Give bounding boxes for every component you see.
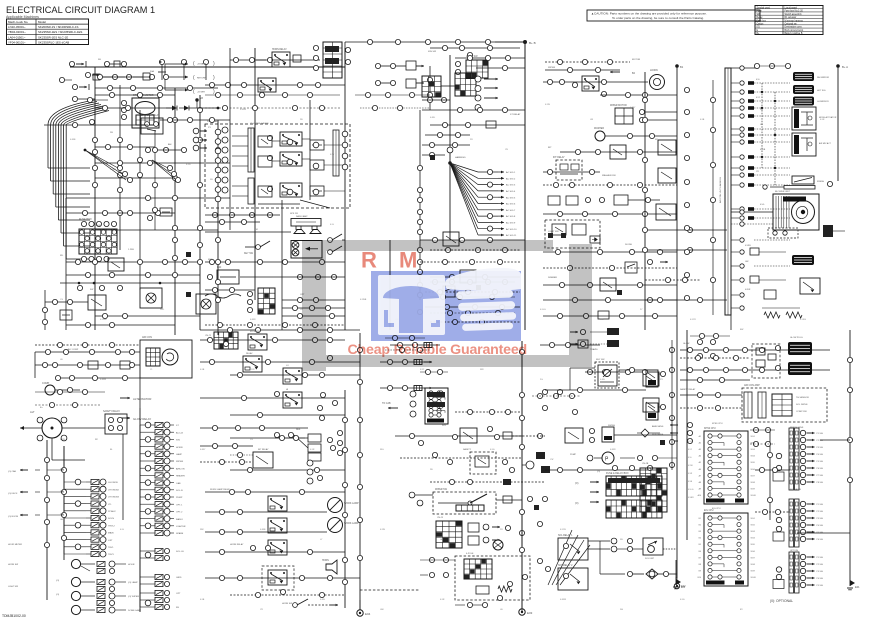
- svg-text:FUSE & RELAY BOX: FUSE & RELAY BOX: [606, 472, 629, 475]
- svg-text:0.5W: 0.5W: [60, 439, 65, 441]
- svg-text:E/G CPU: E/G CPU: [712, 508, 721, 510]
- lamp F1: [328, 498, 360, 513]
- svg-text:0.5Y: 0.5Y: [330, 154, 335, 156]
- connector grid G2: [436, 521, 462, 548]
- bus bar main right: [719, 68, 731, 315]
- svg-text:SOL RELAY 2: SOL RELAY 2: [558, 564, 573, 567]
- svg-text:0.5B: 0.5B: [688, 481, 693, 483]
- bus line xH687: [676, 330, 687, 540]
- svg-text:P4 SIG: P4 SIG: [817, 525, 824, 527]
- wire hG345: [540, 340, 600, 348]
- svg-text:HOT SIG: HOT SIG: [817, 90, 826, 92]
- ground E03: [519, 608, 533, 615]
- svg-text:COMP: COMP: [42, 382, 50, 385]
- svg-text:0.85W: 0.85W: [240, 109, 246, 111]
- wire hG455: [400, 452, 522, 472]
- svg-text:0.5RG: 0.5RG: [800, 319, 806, 321]
- dark cells extra: [325, 46, 660, 483]
- svg-text:P3 SIG: P3 SIG: [817, 571, 824, 573]
- svg-text:0.5YB: 0.5YB: [560, 529, 566, 531]
- wire hF446: [200, 443, 253, 448]
- svg-text:Symbol used: Symbol used: [757, 7, 771, 9]
- relay G-rr1: [646, 370, 666, 387]
- svg-text:SPARE: SPARE: [176, 532, 184, 535]
- connector scatter D: [642, 97, 692, 252]
- lamp F2: [328, 518, 360, 533]
- wire hA125: [44, 119, 148, 127]
- svg-text:0.5GW: 0.5GW: [100, 319, 107, 321]
- connector block BC: [455, 55, 488, 78]
- wire hA288: [60, 282, 200, 291]
- legend table: [755, 6, 823, 36]
- resistor zigzag D2: [786, 312, 802, 318]
- svg-text:P2 SIG: P2 SIG: [817, 511, 824, 513]
- wire hA230: [95, 229, 218, 231]
- svg-text:(O) WIPER: (O) WIPER: [128, 596, 139, 598]
- svg-text:LH MIRROR: LH MIRROR: [817, 101, 829, 103]
- svg-text:RETURN: RETURN: [197, 78, 207, 80]
- svg-text:FR WIPER: FR WIPER: [250, 331, 261, 333]
- svg-text:0.85B: 0.85B: [760, 149, 766, 151]
- wire hD300: [645, 297, 727, 302]
- option label brackets 2: [193, 75, 215, 81]
- wire vB345 top: [344, 42, 346, 60]
- connector row A1: [145, 147, 186, 152]
- svg-text:B3: B3: [699, 531, 701, 533]
- dashed box F9: [262, 566, 294, 590]
- wire hA108: [95, 105, 175, 110]
- svg-text:0.85R: 0.85R: [250, 319, 256, 321]
- wire hH408: [680, 405, 742, 410]
- bus line xA218: [217, 120, 219, 335]
- svg-text:E03: E03: [527, 611, 533, 615]
- svg-text:AIR CON: AIR CON: [142, 336, 152, 339]
- controller A pin labels: [698, 435, 756, 497]
- conn H 430-470 rows: [750, 427, 775, 446]
- wire hG412: [455, 409, 522, 414]
- svg-text:0.5R: 0.5R: [310, 449, 315, 451]
- components D 240-315: [731, 238, 800, 310]
- relay B5: [267, 183, 302, 197]
- connector row CR1: [547, 79, 577, 87]
- svg-text:Mach-to-wk No.: Mach-to-wk No.: [8, 20, 28, 24]
- small box B1: [293, 55, 301, 62]
- svg-text:AMB SENS: AMB SENS: [652, 425, 664, 428]
- wire battery relay to bus: [120, 85, 140, 290]
- wire hC214: [543, 211, 677, 216]
- svg-text:(O): (O): [575, 482, 579, 485]
- svg-text:P1 SIG: P1 SIG: [817, 433, 824, 435]
- svg-text:0.5Y: 0.5Y: [420, 369, 425, 371]
- svg-text:B2: B2: [699, 525, 701, 527]
- diode sym 2: [179, 106, 189, 111]
- bus line xE123: [122, 434, 124, 520]
- arrow rows G top: [570, 328, 619, 347]
- pin strip B: [248, 128, 254, 204]
- wire hH512: [755, 509, 790, 514]
- svg-text:AC SIG 11: AC SIG 11: [506, 234, 517, 237]
- relay D10: [800, 278, 820, 294]
- svg-text:0.5R: 0.5R: [820, 119, 825, 121]
- key switch: [244, 241, 270, 255]
- switch slash D: [792, 176, 833, 187]
- svg-text:RH MIRROR: RH MIRROR: [817, 77, 830, 79]
- svg-text:AC SIG 10: AC SIG 10: [506, 228, 517, 231]
- svg-text:SIG2: SIG2: [751, 525, 755, 527]
- svg-text:AC SIG 7: AC SIG 7: [506, 209, 516, 212]
- relay C225b: [572, 224, 586, 235]
- connector grid F1: [214, 332, 238, 349]
- relay D-l3: [656, 204, 676, 220]
- svg-text:0.85L: 0.85L: [430, 117, 436, 119]
- connector block G1: [425, 388, 448, 424]
- relay B2: [258, 78, 276, 92]
- wire hG435: [395, 426, 543, 445]
- arrow to frame 1: [165, 63, 188, 91]
- svg-text:TRV3: TRV3: [108, 554, 114, 556]
- wire top bus: [70, 67, 345, 120]
- svg-text:SIG8: SIG8: [751, 564, 755, 566]
- svg-text:P6 SIG: P6 SIG: [817, 539, 824, 541]
- arrow E left: [8, 469, 28, 518]
- svg-text:AIR MIX ACT: AIR MIX ACT: [819, 142, 832, 145]
- svg-text:Fuse box: Fuse box: [757, 20, 767, 22]
- svg-text:P3 SIG: P3 SIG: [817, 447, 824, 449]
- relay G-rr2: [646, 403, 666, 420]
- svg-text:SK235SRLC-1ES dCAB: SK235SRLC-1ES dCAB: [38, 40, 69, 44]
- svg-text:PUMP: PUMP: [570, 454, 577, 456]
- wire hB316: [282, 300, 345, 316]
- svg-text:0.85R: 0.85R: [610, 449, 616, 451]
- svg-text:AC SIG 5: AC SIG 5: [506, 196, 516, 199]
- label scatter D: [745, 79, 766, 291]
- fuse rows bottom left: [56, 559, 142, 614]
- wire hA120: [160, 117, 230, 122]
- svg-text:B6: B6: [699, 551, 701, 553]
- svg-text:(O) CAB: (O) CAB: [8, 470, 16, 473]
- svg-text:WASHER SW: WASHER SW: [602, 174, 617, 177]
- wire hB222: [205, 219, 260, 224]
- diode sym 1: [166, 106, 177, 111]
- wire top y42: [345, 39, 525, 44]
- connector col C1: [475, 76, 498, 111]
- svg-text:P7 SIG: P7 SIG: [817, 475, 824, 477]
- wire hC250-2: [430, 247, 520, 252]
- cluster rails B: [232, 136, 248, 196]
- relay CR1: [582, 76, 599, 91]
- svg-text:ALTERNATOR: ALTERNATOR: [133, 397, 151, 401]
- wire hC125: [430, 122, 525, 127]
- connector row C0: [467, 42, 525, 71]
- wire hH358: [680, 355, 750, 360]
- svg-text:AC SIG 9: AC SIG 9: [506, 222, 516, 225]
- svg-text:(O): (O): [597, 471, 600, 473]
- svg-text:SIG9: SIG9: [751, 488, 755, 490]
- ground flag mid: [673, 577, 686, 589]
- cluster circles col B: [215, 129, 221, 202]
- label scatter E: [8, 348, 99, 588]
- wire hE345: [35, 342, 140, 347]
- conn E 355: [42, 349, 134, 380]
- controller block 2: [704, 510, 748, 586]
- svg-text:AC SIG 2: AC SIG 2: [506, 177, 516, 180]
- connector row B275: [207, 274, 345, 279]
- connector A joints: [117, 160, 202, 230]
- resistor zigzag D1: [764, 312, 780, 318]
- relay A4: [88, 295, 106, 310]
- svg-text:0.5B: 0.5B: [200, 599, 205, 601]
- pin strip B right: [333, 130, 348, 176]
- svg-text:SPK 2R: SPK 2R: [290, 213, 298, 215]
- small box G435: [503, 432, 545, 439]
- svg-text:Applicable Machines: Applicable Machines: [6, 15, 39, 19]
- svg-text:HOUR METER: HOUR METER: [8, 544, 22, 546]
- wire hB325: [205, 322, 345, 327]
- svg-text:LW: LW: [760, 124, 763, 126]
- svg-text:LIGHT SW: LIGHT SW: [8, 586, 18, 588]
- svg-text:RADIO: RADIO: [176, 518, 183, 521]
- connector table H: [640, 468, 667, 512]
- wire hG338: [385, 335, 425, 340]
- svg-text:A9: A9: [699, 487, 701, 490]
- wire hH370: [680, 367, 830, 372]
- svg-text:E04: E04: [365, 612, 371, 616]
- diode C240b: [590, 236, 600, 243]
- fusible link F3: [203, 59, 208, 80]
- relay B3: [267, 132, 302, 146]
- wire hB85: [205, 84, 345, 86]
- svg-text:2G: 2G: [540, 379, 543, 381]
- svg-text:SIG7: SIG7: [751, 557, 755, 559]
- controller B pin labels: [698, 518, 756, 579]
- caution note box: [587, 10, 760, 21]
- connector row B4: [297, 297, 334, 318]
- wire hA95b: [95, 92, 175, 97]
- speaker symbols: [294, 226, 321, 234]
- connector row B215: [205, 212, 280, 217]
- wire hA147: [95, 144, 155, 149]
- ground G677: [674, 578, 686, 589]
- svg-text:0.85Y: 0.85Y: [200, 449, 206, 451]
- bus line xF345: [344, 390, 346, 608]
- wire hE352: [35, 349, 140, 354]
- svg-text:HARNESS: HARNESS: [455, 156, 466, 159]
- relay C285: [600, 278, 616, 291]
- svg-text:WIPER MOTOR: WIPER MOTOR: [610, 105, 627, 107]
- conn G extra: [542, 369, 607, 414]
- switch lamp D3: [793, 97, 829, 106]
- svg-text:IGN: IGN: [176, 440, 180, 442]
- svg-text:Relay: Relay: [757, 17, 764, 19]
- glow plug pack 2: [775, 362, 812, 375]
- connector scatter A: [92, 107, 220, 152]
- wire hC152: [560, 149, 677, 154]
- bus line xA200: [199, 95, 201, 330]
- svg-text:LG: LG: [250, 439, 253, 441]
- dashed relay G455: [470, 452, 496, 474]
- radio amp box: [291, 215, 321, 226]
- relay C277: [460, 270, 476, 283]
- connector strip H1: [773, 428, 823, 490]
- relay G-b2: [558, 564, 588, 590]
- wire hB108: [205, 105, 340, 110]
- lever switch box G: [433, 489, 496, 514]
- svg-text:0.5BR: 0.5BR: [688, 497, 694, 499]
- node +B topleft: [189, 97, 219, 109]
- svg-text:A5: A5: [699, 461, 701, 464]
- svg-text:GW: GW: [380, 609, 384, 611]
- svg-text:TO CAB: TO CAB: [382, 402, 391, 405]
- conn G5 labels: [688, 441, 694, 499]
- svg-text:KEY SW: KEY SW: [596, 359, 605, 361]
- wire hF470: [230, 467, 345, 480]
- wire E vert: [35, 352, 140, 408]
- switch box C292: [443, 286, 455, 297]
- arrow label G1: [382, 402, 398, 409]
- box row G1: [468, 523, 500, 532]
- connector block CN-B: [313, 42, 350, 78]
- svg-text:(O): (O): [575, 502, 579, 505]
- wire hC300: [543, 297, 677, 302]
- svg-text:ALT: ALT: [30, 410, 35, 414]
- wire hCR60: [545, 59, 630, 64]
- wire hBC95: [355, 92, 430, 97]
- svg-text:BW: BW: [740, 329, 743, 331]
- pump circle: [587, 452, 614, 464]
- ignition switch assy: [595, 359, 619, 388]
- connector col A140: [92, 149, 142, 192]
- relay H-l1: [643, 372, 659, 386]
- svg-text:0.85B: 0.85B: [70, 139, 76, 141]
- svg-text:SIG4: SIG4: [751, 538, 755, 540]
- wire B diag: [258, 200, 330, 208]
- svg-text:+B: +B: [200, 97, 203, 100]
- connector strip H3: [773, 552, 823, 593]
- svg-text:OPTION: OPTION: [790, 550, 798, 552]
- svg-text:OPT-1: OPT-1: [176, 504, 183, 506]
- fuel pump diamond: [600, 569, 677, 579]
- wire hC240: [420, 237, 525, 242]
- component cluster C200: [548, 195, 660, 205]
- ignition block: [217, 266, 239, 284]
- svg-text:IGN: IGN: [217, 266, 222, 269]
- fuse column mid: [64, 479, 120, 557]
- wire hC322: [430, 319, 520, 324]
- resistor C: [486, 121, 496, 128]
- relay D-l2: [658, 168, 676, 183]
- svg-text:P3 SIG: P3 SIG: [817, 518, 824, 520]
- svg-text:KPSS CPU: KPSS CPU: [704, 428, 716, 430]
- connector A row bottom: [85, 313, 127, 327]
- svg-text:ST RELAY: ST RELAY: [510, 113, 521, 116]
- svg-text:0.5W: 0.5W: [545, 104, 550, 106]
- wire hH470: [755, 467, 790, 472]
- svg-text:SAFETY RELAY: SAFETY RELAY: [103, 410, 120, 413]
- wire hC277: [430, 274, 520, 279]
- svg-text:LH KNOB: LH KNOB: [108, 482, 118, 484]
- wire hC48: [430, 45, 520, 50]
- box row G2: [468, 536, 500, 545]
- svg-text:0.5Y: 0.5Y: [688, 449, 693, 451]
- junction dots D: [761, 83, 776, 185]
- bus line x420 top: [419, 110, 421, 180]
- wire hB308: [282, 305, 345, 310]
- circle G468: [522, 461, 534, 469]
- wire hA198: [66, 197, 230, 199]
- svg-text:RADIO AMP: RADIO AMP: [296, 215, 308, 218]
- svg-text:(O) BOOM: (O) BOOM: [8, 516, 18, 518]
- small rects H1: [756, 348, 776, 367]
- wire hB290: [205, 287, 255, 292]
- svg-text:4-POLE: 4-POLE: [466, 553, 474, 555]
- alternator label arrow: [120, 397, 151, 401]
- svg-text:0.85W: 0.85W: [100, 379, 106, 381]
- svg-text:CAB: CAB: [176, 482, 181, 485]
- harness wire bundle: [48, 100, 109, 259]
- wire hA88: [95, 85, 218, 90]
- svg-text:A3: A3: [699, 448, 701, 451]
- wire hB232: [205, 231, 291, 233]
- svg-text:TRVL2: TRVL2: [108, 525, 116, 527]
- relay C240: [443, 232, 459, 246]
- wire hC95: [600, 92, 677, 97]
- wire vA45: [42, 290, 47, 330]
- dark rect G455b: [541, 466, 550, 473]
- svg-text:RG: RG: [620, 609, 624, 611]
- relay G435: [460, 428, 477, 443]
- wire E links: [35, 470, 64, 515]
- dark rect G455a: [536, 452, 545, 459]
- svg-text:+B SER: +B SER: [197, 92, 205, 94]
- svg-text:(O): (O): [56, 580, 59, 582]
- connector CR2: [601, 79, 606, 96]
- label scatter B: [208, 122, 305, 296]
- svg-text:P4 SIG: P4 SIG: [817, 454, 824, 456]
- compressor: [42, 382, 80, 395]
- option label brackets 3: [193, 89, 215, 95]
- wire hF532: [205, 529, 327, 534]
- wire hF340: [200, 337, 345, 346]
- arrow rows G: [575, 481, 599, 505]
- svg-text:LN10-45001~: LN10-45001~: [8, 25, 26, 29]
- svg-text:GLOW: GLOW: [683, 343, 689, 345]
- title ELECTRICAL CIRCUIT DIAGRAM 1: [6, 5, 155, 19]
- svg-text:HORN SW: HORN SW: [8, 564, 18, 566]
- svg-text:SIG5: SIG5: [751, 544, 755, 546]
- bus line xB255: [254, 48, 256, 120]
- svg-text:P1 SIG: P1 SIG: [817, 504, 824, 506]
- svg-text:P4 SIG: P4 SIG: [817, 578, 824, 580]
- wire hF595: [230, 589, 345, 597]
- box B8: [310, 186, 324, 196]
- svg-text:Cheap Reliable Guaranteed: Cheap Reliable Guaranteed: [348, 342, 528, 358]
- controller dash box: [742, 384, 827, 422]
- svg-text:+B BACK: +B BACK: [197, 63, 207, 66]
- relay G-rr3: [589, 427, 614, 443]
- wire hD drop: [730, 315, 732, 330]
- doc number: [2, 614, 26, 618]
- bus line xD713: [710, 80, 715, 315]
- svg-text:SOL-LE: SOL-LE: [176, 551, 184, 553]
- svg-text:AC SIG 4: AC SIG 4: [506, 190, 516, 193]
- wire hE365: [35, 362, 140, 367]
- connector grid G3: [464, 559, 492, 579]
- relay F1: [248, 334, 267, 350]
- svg-text:AC SIG 1: AC SIG 1: [506, 171, 516, 174]
- svg-text:STARTER MOTOR: STARTER MOTOR: [133, 94, 154, 97]
- relay F7: [268, 518, 287, 533]
- svg-text:DIODE: DIODE: [625, 244, 632, 246]
